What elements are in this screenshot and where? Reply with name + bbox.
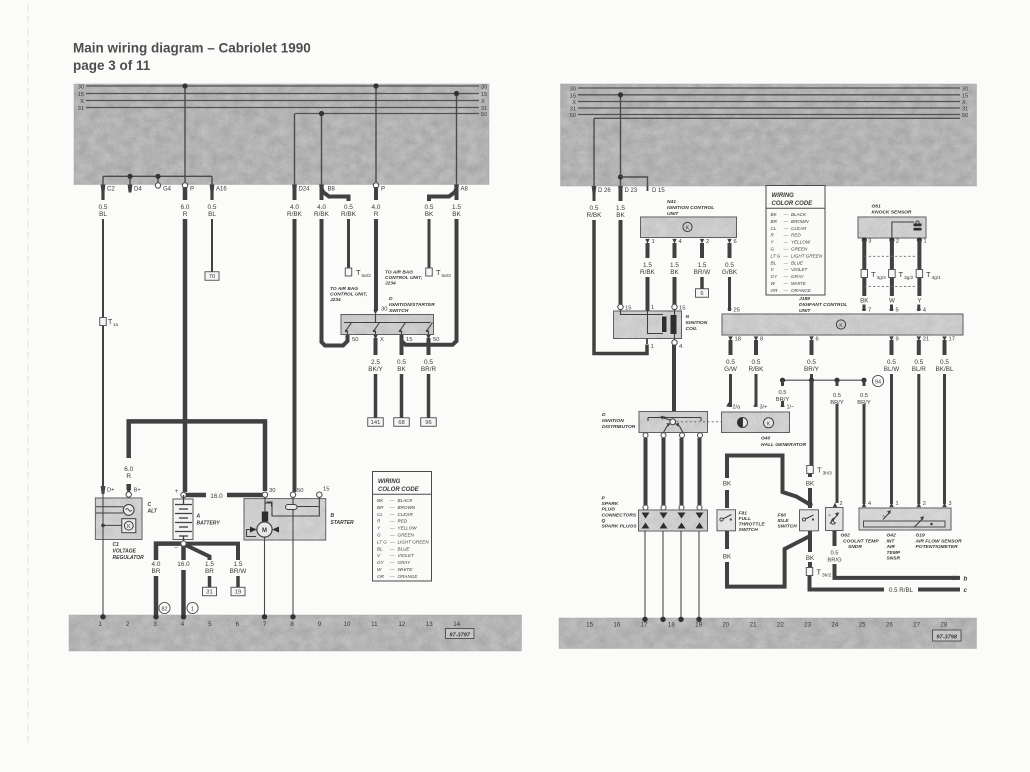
voltage regulator K symbol [122,519,136,533]
coil windings [621,309,664,315]
svg-text:4.0: 4.0 [372,204,381,211]
svg-text:A: A [196,514,201,520]
svg-text:24: 24 [831,622,838,629]
starter terminal 50 [290,492,295,497]
svg-text:6a/3: 6a/3 [442,273,452,279]
wire 1.5 BK N41 pin4 to coil 15 [673,243,677,258]
bus X left [86,100,479,102]
terminal D15 [647,186,649,191]
connector T6a/3 to air bag unit [426,268,433,276]
svg-text:SWITCH: SWITCH [389,308,409,314]
svg-text:M: M [262,528,267,534]
connector T6a/2 to air bag unit [345,268,352,276]
svg-text:UNIT: UNIT [799,308,811,314]
terminal D+ alternator [101,486,106,494]
svg-text:4.0: 4.0 [152,561,161,568]
wire 0.5 BR/R from switch 50 [427,338,431,355]
svg-text:0.5: 0.5 [833,393,841,399]
wire 1.5 BR/W N41 pin2 to ground 6 [700,243,704,258]
svg-text:BK: BK [616,212,625,219]
svg-text:13: 13 [426,621,433,628]
svg-text:23: 23 [804,622,811,629]
wire 2.5 BK/Y from switch X [374,338,378,355]
svg-text:2: 2 [706,239,709,245]
svg-text:G61: G61 [872,204,882,210]
svg-text:1: 1 [896,501,899,507]
ignition distributor D box [639,412,708,433]
ground designation box 6 [696,289,709,298]
svg-text:28: 28 [940,622,947,629]
svg-text:OR: OR [377,574,385,579]
svg-text:—: — [783,240,789,245]
wire 0.5 G/W J189 18 to hall 2a [729,340,733,355]
svg-text:N41: N41 [667,199,676,205]
terminal D24 [292,185,297,193]
svg-text:96: 96 [425,420,431,426]
switch terminal X [373,335,378,340]
svg-text:CLEAR: CLEAR [398,512,414,517]
terminal A16 [210,185,215,193]
svg-text:0.5: 0.5 [208,204,217,211]
svg-text:G40: G40 [761,436,771,442]
spark plug connectors box [639,510,708,531]
wire 0.5 BK/BL J189 17 to G19 3 [943,340,947,355]
terminal C2 [101,185,106,193]
starter series resistor [262,512,268,522]
junction 6.0R at B+ bus [182,419,188,425]
svg-text:G: G [377,533,381,538]
svg-text:R/BK: R/BK [749,366,765,373]
coil bottom terminal 1 [646,339,648,345]
svg-text:141: 141 [371,420,381,426]
coil bottom terminal 4 [672,340,677,345]
terminal P [182,183,187,188]
svg-text:1: 1 [98,621,102,628]
svg-text:31: 31 [570,107,576,113]
svg-text:6a/2: 6a/2 [362,273,372,279]
svg-text:3: 3 [949,501,952,507]
wire 16.0 battery minus to ground strip [181,546,186,560]
starter solenoid winding [292,498,294,505]
svg-text:0.5: 0.5 [397,359,406,366]
starter terminal 30 [262,492,267,497]
svg-text:N: N [686,314,690,320]
svg-text:6.0: 6.0 [124,466,133,473]
svg-text:82: 82 [162,606,168,612]
svg-text:X: X [572,100,576,106]
svg-text:FULL: FULL [739,516,752,522]
svg-text:W: W [771,281,776,286]
diagram code 97-3798 [933,630,962,641]
svg-text:1: 1 [191,606,194,612]
svg-text:THROTTLE: THROTTLE [739,522,766,528]
starter switch contact from 30 [264,498,266,512]
svg-text:2/a: 2/a [733,405,742,411]
svg-text:F81: F81 [739,511,748,517]
svg-text:AIR FLOW SENSOR: AIR FLOW SENSOR [915,538,963,544]
svg-text:17: 17 [641,622,648,629]
svg-text:70: 70 [209,274,215,280]
spark plug connector terminals [643,505,648,510]
J189 pin 18 [728,336,733,341]
svg-text:6: 6 [734,239,737,245]
switch terminal 50b [426,335,431,340]
svg-text:19: 19 [695,622,702,629]
svg-text:6.0: 6.0 [181,204,190,211]
svg-text:G42: G42 [887,533,897,539]
svg-text:3: 3 [153,621,157,628]
battery plates [175,504,192,506]
svg-text:D 23: D 23 [625,188,638,194]
J189 pin 9 [889,336,894,341]
hall K symbol [764,418,774,428]
svg-text:+: + [175,489,179,495]
svg-text:BK: BK [670,269,679,276]
svg-text:B+: B+ [134,488,142,494]
svg-text:BR: BR [205,568,214,575]
svg-text:W: W [889,298,895,305]
svg-text:ORANGE: ORANGE [398,574,419,579]
svg-text:VIOLET: VIOLET [791,267,809,272]
svg-text:D 15: D 15 [652,188,665,194]
svg-text:D4: D4 [134,187,142,193]
air sensor terminal 2 [917,503,922,508]
svg-text:PLUG: PLUG [602,507,616,513]
wire 0.5 R/BL to node c [810,576,959,590]
svg-text:Y: Y [917,298,921,305]
svg-text:—: — [389,526,395,531]
svg-text:CL: CL [377,512,383,517]
distributor dashed link to hall sensor [677,421,740,423]
svg-text:LT G: LT G [377,539,387,544]
bus 15 left [86,93,479,95]
svg-text:17: 17 [949,337,955,343]
svg-text:BR/G: BR/G [827,558,842,564]
wiring color code legend right [766,186,825,296]
svg-text:BL: BL [208,211,216,218]
svg-text:R/BK: R/BK [341,211,357,218]
ground designation box 96 [421,418,437,427]
svg-text:7: 7 [868,308,871,314]
ignition coil terminal 15 right [672,304,677,309]
svg-text:12: 12 [398,621,405,628]
svg-text:G/W: G/W [724,366,738,373]
hall sensor symbol [738,418,748,428]
knock sensor piezo symbol [914,224,922,231]
svg-text:IGNITION: IGNITION [686,320,708,326]
svg-text:—: — [389,560,395,565]
svg-text:21: 21 [923,337,929,343]
svg-text:5: 5 [896,308,899,314]
svg-text:15: 15 [323,487,329,493]
svg-text:—: — [783,267,789,272]
terminal D4 [128,185,133,193]
digifant control unit J189 box [722,314,963,335]
svg-text:25: 25 [734,308,740,314]
svg-text:31: 31 [78,106,84,112]
svg-text:20: 20 [722,622,729,629]
svg-text:BR/W: BR/W [694,269,712,276]
ignition coil N box [614,311,682,339]
terminal G4 [155,183,160,188]
svg-text:WHITE: WHITE [791,281,807,286]
svg-text:1: 1 [923,239,926,245]
svg-text:19: 19 [235,590,241,596]
bus X right [578,101,960,103]
svg-text:D: D [389,296,393,302]
svg-text:T: T [817,466,822,475]
svg-text:97-3798: 97-3798 [936,634,957,640]
svg-text:LIGHT GREEN: LIGHT GREEN [791,253,823,258]
svg-text:G: G [771,247,775,252]
svg-text:BK/Y: BK/Y [368,366,383,373]
wire D26 riser [593,118,595,186]
svg-text:INT: INT [887,538,896,544]
svg-text:T: T [356,268,361,277]
svg-text:TO AIR BAG: TO AIR BAG [330,286,358,292]
svg-text:BK: BK [425,211,434,218]
svg-text:15: 15 [481,92,487,98]
svg-text:BR/R: BR/R [421,366,437,373]
svg-text:26: 26 [886,622,893,629]
svg-text:GY: GY [377,560,385,565]
knock sensor wire 1 [917,240,921,270]
svg-text:A8: A8 [461,187,469,193]
svg-text:1.5: 1.5 [643,262,652,269]
svg-text:2: 2 [896,239,899,245]
ground designation box 70 [205,272,219,281]
svg-text:X: X [80,99,84,105]
svg-text:CONTROL UNIT,: CONTROL UNIT, [330,292,367,298]
svg-text:—: — [389,533,395,538]
svg-text:GRAY: GRAY [398,560,412,565]
svg-text:GREEN: GREEN [398,533,415,538]
svg-text:D+: D+ [107,488,115,494]
full throttle switch F81 box [717,510,736,531]
svg-text:—: — [389,505,395,510]
knock sensor wire 3 [862,240,866,270]
svg-text:—: — [783,260,789,265]
svg-text:G19: G19 [916,533,926,539]
right ground strip band [559,618,977,649]
svg-text:1.5: 1.5 [205,561,214,568]
svg-text:16.0: 16.0 [177,561,190,568]
svg-text:30: 30 [381,307,387,313]
svg-text:6: 6 [816,337,819,343]
svg-text:B8: B8 [328,187,336,193]
svg-text:R: R [374,211,379,218]
wire BK T3h/3 to F60 [808,474,812,478]
N41 pin 1 [645,239,650,244]
J189 pin 8 [754,336,759,341]
starter ground wire 50 side [292,516,294,616]
svg-text:GY: GY [771,274,779,279]
svg-text:BK: BK [860,298,869,305]
svg-text:SPARK: SPARK [602,501,619,507]
wire 0.5 BR/Y pin6 down to T3h/3 [810,380,814,465]
svg-text:DIGIFANT CONTROL: DIGIFANT CONTROL [799,302,847,308]
terminal B8 [319,185,324,193]
svg-text:—: — [389,498,395,503]
svg-text:G62: G62 [841,533,851,539]
svg-text:IGNITION CONTROL: IGNITION CONTROL [667,205,714,211]
svg-text:ORANGE: ORANGE [791,288,812,293]
ignition control unit N41 box [641,217,737,238]
bus 31 left [86,107,479,109]
wire 6.0 R B+ bus to starter 30 [129,421,265,491]
starter 15 loop wire [267,498,320,517]
alternator C box [95,498,142,540]
wire 0.5 BR/G G62 to node b [833,531,837,546]
svg-text:c: c [964,587,968,594]
wire A8 riser to bus 15 [456,94,458,185]
svg-text:SPARK PLUGS: SPARK PLUGS [602,524,638,530]
J189 pin 21 [917,336,922,341]
svg-text:—: — [389,553,395,558]
svg-text:B: B [331,513,335,519]
svg-text:1.5: 1.5 [234,561,243,568]
N41 pin 4 [672,239,677,244]
svg-text:BK: BK [771,212,778,217]
bus 15 right [578,94,960,96]
wiring color code legend left [373,472,432,582]
svg-text:ʌ: ʌ [883,513,885,518]
svg-text:OR: OR [771,288,779,293]
svg-text:J234: J234 [330,297,341,303]
diagram code 97-3797 [446,629,475,639]
svg-text:SWITCH: SWITCH [739,527,759,533]
svg-text:WIRING: WIRING [772,193,795,199]
wire 0.5 BR/Y J189 6 junction [810,340,814,355]
svg-text:T: T [926,270,931,279]
svg-text:4.0: 4.0 [317,204,326,211]
junction D4 [127,174,132,179]
svg-text:TO AIR BAG: TO AIR BAG [385,270,413,276]
idle switch F60 box [800,510,819,531]
wire 4.0 R/BK from D24 to starter 50 [293,186,297,200]
svg-text:YELLOW: YELLOW [791,240,811,245]
svg-text:18: 18 [735,337,741,343]
scan artifact faint vertical line [27,4,29,748]
bus 30 right [578,87,960,89]
svg-text:0.5: 0.5 [424,359,433,366]
svg-text:9: 9 [318,621,322,628]
svg-text:31: 31 [962,107,968,113]
svg-text:page 3 of 11: page 3 of 11 [73,58,151,73]
air sensor terminal 4 [862,503,867,508]
knock sensor G61 box [858,217,926,238]
svg-text:0.5: 0.5 [860,393,868,399]
svg-text:3h/2: 3h/2 [822,573,832,579]
svg-text:1.5: 1.5 [616,205,625,212]
svg-text:R/BK: R/BK [287,211,303,218]
svg-text:—: — [783,233,789,238]
svg-text:TEMP: TEMP [887,550,901,556]
svg-text:—: — [389,539,395,544]
svg-text:Main wiring diagram – Cabriole: Main wiring diagram – Cabriolet 1990 [73,41,311,56]
left ground strip band [69,615,522,651]
wire 0.5 BK branch from A8 [429,188,457,201]
ignition coil terminal 15 left [618,304,623,309]
svg-text:GRAY: GRAY [791,274,805,279]
terminal P ignition [373,183,378,188]
bus 31 right [578,107,960,109]
spark plug HT wires [644,438,648,505]
svg-text:6: 6 [700,291,703,297]
J189 pin 17 [942,336,947,341]
right bus bar band [561,84,977,186]
svg-text:BLUE: BLUE [791,260,804,265]
svg-text:50: 50 [481,112,487,118]
svg-text:0.5: 0.5 [99,204,108,211]
N41 pin 6 [727,239,732,244]
wire 16.0 battery plus to starter 30 [184,493,266,498]
knock sensor pin 2 [889,237,894,242]
svg-text:10: 10 [344,621,351,628]
svg-text:CONTROL UNIT,: CONTROL UNIT, [385,275,422,281]
wire D15 branch [618,174,623,179]
terminal B+ alternator [126,484,131,492]
svg-text:BK: BK [377,498,384,503]
ground designation box 68 [394,418,410,427]
svg-text:8: 8 [760,337,763,343]
svg-text:LT G: LT G [771,253,781,258]
svg-text:Q: Q [602,518,606,524]
svg-text:RED: RED [791,233,801,238]
svg-text:KNOCK SENSOR: KNOCK SENSOR [872,210,912,216]
svg-text:COIL: COIL [686,326,698,332]
svg-text:BR/W: BR/W [230,568,248,575]
svg-text:30: 30 [962,87,968,93]
ground circle 1 [187,602,198,613]
svg-text:3/+: 3/+ [760,405,768,411]
wire 1.5 BR/W battery minus to terminal 19 [184,544,239,560]
svg-text:4: 4 [181,621,185,628]
svg-text:G4: G4 [163,187,172,193]
svg-text:BR/Y: BR/Y [804,366,820,373]
potentiometer symbol [915,518,924,528]
svg-text:16.0: 16.0 [210,493,223,500]
svg-text:30: 30 [570,87,576,93]
svg-text:BROWN: BROWN [398,505,416,510]
svg-text:—: — [389,567,395,572]
wire D23 riser to bus 15 [620,95,622,186]
ground designation box 19 [231,587,245,596]
wire 0.5 BL/R J189 21 to G19 2 [917,340,921,355]
svg-text:94: 94 [875,379,881,385]
air flow sensor G19 box [859,508,951,530]
svg-text:R/BK: R/BK [640,269,656,276]
svg-text:GREEN: GREEN [791,247,808,252]
svg-text:WHITE: WHITE [398,567,414,572]
int air temp sensor symbol [883,512,891,520]
svg-text:7: 7 [263,621,267,628]
svg-text:T: T [436,268,441,277]
svg-text:2.5: 2.5 [371,359,380,366]
svg-text:D24: D24 [299,187,311,193]
bus unlabeled right [594,117,960,119]
svg-text:2: 2 [840,501,843,507]
svg-text:COOLNT TEMP: COOLNT TEMP [843,538,879,544]
svg-text:BK: BK [723,481,732,488]
svg-text:BROWN: BROWN [791,219,809,224]
svg-text:—: — [783,274,789,279]
coil HT wire to distributor [672,345,676,419]
terminal A8 [454,185,459,193]
connector T3g/2 [889,270,896,278]
svg-text:3g/3: 3g/3 [877,275,887,281]
svg-text:RED: RED [398,519,408,524]
